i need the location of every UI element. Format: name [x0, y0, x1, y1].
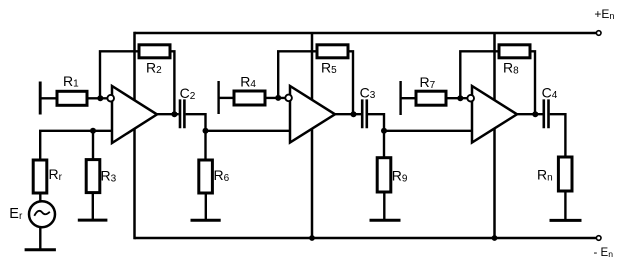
wire feedback riser 2 — [278, 51, 317, 98]
node junction dot feedback tap 1 — [97, 95, 103, 101]
source Er — [29, 201, 55, 227]
wire R6 top lead — [204, 131, 206, 160]
wire feedback riser 3 — [460, 51, 499, 98]
node inverting bubble U2 — [285, 95, 292, 102]
wire R3 top lead — [92, 131, 94, 160]
resistor R8 — [499, 45, 530, 58]
wire C3 to stage 3 — [368, 114, 384, 131]
wire R8 to output node 3 — [530, 51, 535, 114]
wire U3 output to C4 — [517, 113, 543, 115]
node junction dot rail/vertical2 — [309, 235, 315, 241]
resistor R6 — [199, 160, 213, 193]
wire R9 bottom lead — [383, 192, 385, 220]
wire U1 output to C2 — [157, 113, 179, 115]
ground Er — [25, 248, 56, 251]
node junction dot stage3 non-inv — [381, 128, 387, 134]
wire -En bottom rail — [135, 237, 597, 240]
resistor R7 — [416, 91, 446, 105]
wire Er bottom lead — [39, 227, 41, 249]
node junction dot output 3 — [532, 111, 538, 117]
svg-text:- En: - En — [594, 247, 614, 259]
resistor R1 — [57, 91, 87, 105]
wire to U3 non-inverting input — [384, 130, 472, 132]
ground R9 — [370, 219, 401, 222]
resistor R3 — [86, 160, 100, 193]
wire input to R1 — [40, 97, 57, 99]
node +En terminal — [596, 31, 601, 36]
wire power vertical 3 (through U3) — [493, 33, 496, 238]
node -En terminal — [596, 236, 601, 241]
resistor R2 — [139, 45, 170, 58]
node junction dot feedback tap 2 — [275, 95, 281, 101]
wire bar to R4 — [219, 97, 234, 99]
capacitor C4 — [544, 99, 549, 128]
wire feedback riser 1 — [100, 51, 139, 98]
ground R3 — [78, 219, 108, 222]
resistor Rn — [558, 157, 572, 191]
resistor R9 — [377, 158, 391, 192]
resistor Rr — [33, 160, 47, 193]
node inverting bubble U1 — [107, 95, 114, 102]
node input terminal bar stage 2 — [217, 81, 219, 114]
node junction dot rail/vertical3 — [492, 235, 498, 241]
wire R4 to inverting input U2 — [265, 97, 286, 99]
sine wave inside Er — [34, 211, 50, 216]
wire power vertical 2 (through U2) — [311, 33, 314, 238]
node junction dot R3 top — [90, 128, 96, 134]
wire Rn bottom lead — [564, 191, 566, 220]
wire R2 to output node 1 — [170, 51, 174, 114]
wire to U2 non-inverting input — [206, 130, 291, 132]
wire R7 to inverting input U3 — [446, 97, 468, 99]
ground Rn — [550, 219, 582, 222]
wire R3 bottom lead — [92, 193, 94, 220]
node junction dot output 1 — [171, 111, 177, 117]
resistor R5 — [317, 45, 348, 58]
node inverting bubble U3 — [467, 95, 474, 102]
wire R1 to inverting input U1 — [87, 97, 108, 99]
wire R5 to output node 2 — [348, 51, 353, 114]
wire C4 to Rn — [550, 114, 566, 157]
op-amp U3 — [472, 86, 517, 143]
resistor R4 — [234, 91, 265, 105]
op-amp U2 — [290, 86, 335, 143]
wire R9 top lead — [383, 131, 385, 158]
ground R6 — [191, 219, 221, 222]
wire +En top rail — [135, 32, 597, 35]
wire C2 to stage 2 — [186, 114, 206, 131]
capacitor C2 — [180, 99, 184, 128]
op-amp U1 — [112, 86, 157, 143]
node junction dot feedback tap 3 — [457, 95, 463, 101]
capacitor C3 — [362, 99, 367, 128]
wire source top / non-inverting wire stage1 — [40, 131, 112, 160]
node input terminal bar stage 3 — [399, 81, 401, 115]
wire R6 bottom lead — [205, 193, 207, 220]
node input terminal bar stage 1 — [39, 82, 42, 115]
wire power vertical 1 (left, through U1) — [133, 32, 136, 240]
node junction dot stage2 non-inv — [203, 128, 209, 134]
node junction dot output 2 — [351, 111, 357, 117]
wire U2 output to C3 — [335, 113, 361, 115]
wire bar to R7 — [401, 97, 416, 99]
wire Rr to Er — [39, 193, 41, 202]
